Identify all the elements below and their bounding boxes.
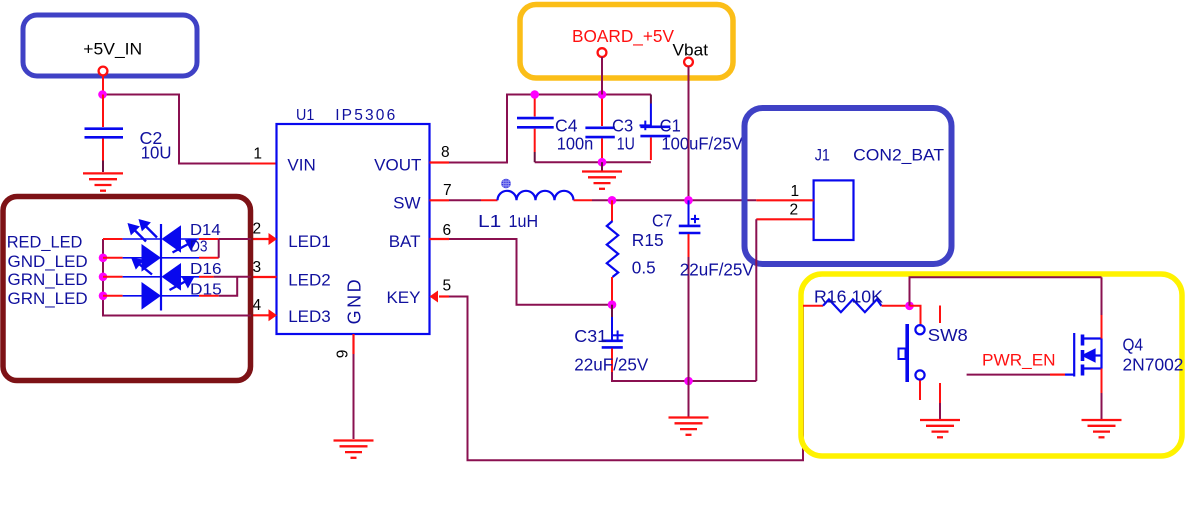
switch SW8 actuator bar [905, 324, 909, 382]
pin 3 LED2 stub [251, 276, 277, 278]
wire C7 to bottom bus [688, 257, 690, 381]
capacitor C31 lead top [611, 305, 613, 317]
pin 5 KEY arrow [430, 291, 450, 303]
node bus row2 [99, 253, 108, 262]
svg-text:L1: L1 [478, 211, 501, 231]
wire C2 to ground [102, 161, 104, 173]
terminal circle +5V_IN [99, 67, 108, 76]
node bus row3 [99, 273, 108, 282]
node bottom bus / ground [684, 377, 693, 386]
pin stub row4 left [103, 295, 123, 297]
LED D14 arrows [129, 221, 157, 242]
wire row1 to pin2 [219, 238, 251, 240]
wire row3 to pin3 [214, 276, 251, 278]
svg-text:SW8: SW8 [928, 325, 968, 345]
node SW/R15 [608, 196, 617, 205]
switch SW8 stub bottom-left [919, 381, 921, 401]
svg-text:C7: C7 [652, 211, 672, 231]
node SW/Vbat [684, 196, 693, 205]
LED D16 line left [123, 276, 161, 278]
node A (+5V_IN junction) [98, 90, 107, 99]
wire VOUT to top bus [449, 95, 651, 163]
capacitor C1 lead bottom [650, 138, 652, 161]
svg-text:2: 2 [253, 221, 262, 238]
wire PWR_EN to gate [967, 374, 1050, 376]
svg-text:LED2: LED2 [288, 270, 331, 289]
node BAT/R15/C31 [608, 300, 617, 309]
svg-text:5: 5 [443, 278, 452, 295]
ground (Q4) [1082, 420, 1122, 437]
control group box (yellow) [801, 274, 1182, 456]
LED D15 arrow [170, 278, 193, 290]
LED D14 [162, 225, 182, 253]
LED D15 line left [123, 295, 142, 297]
ground (C2) [83, 173, 123, 190]
svg-text:C31: C31 [574, 326, 607, 346]
pin stub row2 left [103, 257, 123, 259]
wire bottom bus of C4/C3/C1 [535, 161, 651, 163]
capacitor C2 lead bottom [102, 139, 104, 161]
wire L1 to R15 node to Vbat node to J1 [592, 199, 756, 201]
svg-text:VIN: VIN [287, 156, 315, 175]
polarity plus C7 [691, 215, 699, 223]
pin 1 J1 [756, 199, 813, 201]
svg-text:100uF/25V: 100uF/25V [661, 133, 743, 153]
node top bus / C4 [530, 90, 539, 99]
wire SW8 to ground [939, 403, 941, 419]
pin stub row2 right [199, 257, 219, 259]
power port box BOARD_+5V [520, 5, 733, 79]
LED D3 [142, 244, 162, 272]
wire C3 node to ground [601, 162, 603, 170]
svg-text:9: 9 [334, 350, 351, 359]
LED D15 line right [161, 295, 199, 297]
svg-text:J1: J1 [815, 145, 830, 164]
LED group box (maroon) [3, 197, 251, 381]
svg-text:7: 7 [443, 182, 452, 199]
transistor Q4 drain lead [1101, 315, 1103, 339]
pin 7 SW stub [430, 199, 450, 201]
connector body J1 [814, 180, 854, 240]
transistor Q4 gate pin [1050, 374, 1065, 376]
switch SW8 stub bottom-right [939, 383, 941, 403]
pin 2 J1 [756, 218, 813, 220]
svg-text:VOUT: VOUT [374, 156, 421, 175]
resistor R16 [823, 299, 882, 312]
svg-text:0.5: 0.5 [632, 258, 656, 278]
switch SW8 contact top [915, 325, 924, 334]
node R16/SW8/Q4 [905, 302, 914, 311]
capacitor C2 lead top [102, 95, 104, 128]
capacitor C7 [679, 226, 701, 233]
resistor R16 lead left [803, 305, 823, 307]
svg-text:D16: D16 [190, 261, 222, 278]
LED D16 line right [181, 276, 199, 278]
capacitor C2 [85, 129, 124, 138]
LED D16 [162, 263, 182, 291]
wire C4 bottom to bus [534, 152, 536, 162]
pin stub row1 left [103, 238, 123, 240]
svg-text:GRN_LED: GRN_LED [8, 270, 88, 289]
inductor L1 [498, 191, 574, 201]
svg-text:U1: U1 [296, 107, 314, 124]
polarity plus C1 [640, 121, 651, 131]
wire pin9 to ground [353, 354, 355, 439]
capacitor C1 lead top [650, 95, 652, 104]
pin stub row3 left [103, 276, 123, 278]
svg-text:10U: 10U [141, 143, 172, 163]
svg-text:22uF/25V: 22uF/25V [574, 355, 648, 375]
wire C31 to bottom bus [612, 372, 756, 381]
pin 1 red stub [250, 163, 277, 165]
resistor R16 lead right [882, 305, 910, 307]
inductor L1 lead left [481, 199, 498, 201]
wire row2 riser to row1 [218, 239, 220, 258]
svg-text:D14: D14 [190, 222, 221, 239]
svg-text:3: 3 [253, 259, 262, 276]
wire bus node to ground [688, 381, 690, 417]
wire node to VIN corner [103, 95, 251, 164]
switch SW8 pin top-left [910, 306, 921, 325]
ground (U1 pin 9) [334, 441, 374, 458]
svg-text:LED3: LED3 [288, 307, 331, 326]
LED D14 line left [123, 238, 161, 240]
capacitor C31 lead bottom [611, 349, 613, 373]
pin stub row4 right [199, 295, 219, 297]
LED D3 line left [123, 257, 142, 259]
svg-text:6: 6 [443, 222, 452, 239]
svg-text:PWR_EN: PWR_EN [982, 351, 1056, 370]
switch SW8 actuator button [899, 349, 906, 360]
svg-text:1U: 1U [617, 133, 635, 153]
svg-text:22uF/25V: 22uF/25V [680, 260, 754, 280]
wire node up to drain bus [910, 277, 1102, 306]
LED D3 arrow [173, 240, 196, 252]
svg-text:1uH: 1uH [509, 211, 539, 231]
LED D16 arrow [133, 259, 152, 274]
polarity plus C31 [612, 331, 623, 341]
wire BAT pin to R15 bottom [449, 239, 612, 305]
pin 9 GND stub [352, 334, 354, 354]
capacitor C4 [517, 118, 554, 127]
svg-text:LED1: LED1 [288, 232, 331, 251]
capacitor C4 lead top [534, 95, 536, 117]
capacitor C3 lead bottom [601, 139, 603, 163]
svg-text:RED_LED: RED_LED [7, 233, 83, 252]
pin 2 LED1 arrow [251, 233, 277, 245]
switch SW8 stub top-right [939, 306, 941, 324]
resistor R15 lead bottom [611, 277, 613, 305]
transistor Q4 2N7002 [1065, 333, 1102, 377]
ground (battery bus) [669, 418, 709, 435]
svg-text:2: 2 [790, 202, 799, 219]
svg-text:GRN_LED: GRN_LED [8, 289, 88, 308]
pin 4 LED3 arrow [251, 309, 277, 321]
wire Vbat down to SW node [688, 66, 690, 200]
pin stub row3 right [199, 276, 214, 278]
terminal circle Vbat [684, 58, 693, 67]
node bus row4 [99, 292, 108, 301]
wire row4 riser to row3 [219, 277, 238, 296]
wire SW pin to L1 [449, 199, 481, 201]
wire LED left bus [103, 239, 251, 316]
resistor R15 [607, 221, 618, 277]
svg-text:1: 1 [791, 183, 800, 200]
polarity dot L1 [501, 179, 511, 189]
svg-text:D15: D15 [190, 281, 222, 298]
svg-text:BOARD_+5V: BOARD_+5V [572, 26, 674, 47]
svg-text:Q4: Q4 [1123, 335, 1144, 355]
svg-text:IP5306: IP5306 [335, 107, 395, 124]
terminal circle BOARD_+5V [598, 48, 607, 57]
svg-text:D3: D3 [190, 239, 208, 256]
transistor Q4 source lead [1101, 369, 1103, 394]
svg-text:R15: R15 [632, 230, 664, 250]
svg-text:R16 10K: R16 10K [814, 287, 883, 307]
pin 6 BAT stub [430, 238, 450, 240]
capacitor C4 lead bottom [534, 129, 536, 152]
wire drain bus down to Q4 [1101, 277, 1103, 315]
svg-text:4: 4 [253, 297, 262, 314]
wire +5V_IN terminal to node [102, 76, 104, 95]
inductor L1 lead right [574, 199, 593, 201]
wire J1 pin2 to bottom bus [755, 219, 757, 381]
svg-text:GND: GND [345, 279, 365, 324]
connector box J1 [745, 108, 952, 264]
svg-text:BAT: BAT [389, 232, 421, 251]
pin stub row1 right [199, 238, 219, 240]
capacitor C1 [640, 127, 670, 136]
svg-text:GND_LED: GND_LED [8, 252, 88, 271]
resistor R15 lead top [611, 200, 613, 221]
ground (C3 bus) [582, 172, 622, 189]
wire KEY pin to R16 [449, 297, 803, 461]
capacitor C7 lead top [688, 200, 690, 225]
node bottom bus / C3 ground [598, 158, 607, 167]
pin 8 VOUT stub [430, 161, 450, 163]
LED common bar [160, 224, 162, 311]
node top bus / C3 [598, 90, 607, 99]
svg-text:CON2_BAT: CON2_BAT [853, 145, 944, 164]
svg-text:2N7002: 2N7002 [1123, 354, 1184, 374]
svg-text:8: 8 [441, 144, 450, 161]
svg-text:1: 1 [253, 146, 262, 163]
capacitor C3 [585, 128, 614, 137]
wire BOARD_+5V to top bus [601, 57, 603, 95]
LED D14 line right [181, 238, 199, 240]
LED D3 line right [161, 257, 199, 259]
port box +5V_IN [23, 15, 197, 76]
capacitor C3 lead top [601, 95, 603, 127]
op-amp U1 chip body IP5306 [277, 124, 430, 334]
svg-text:KEY: KEY [386, 288, 420, 307]
svg-text:+5V_IN: +5V_IN [83, 40, 142, 59]
ground (SW8) [920, 420, 960, 437]
capacitor C7 lead bottom [688, 234, 690, 257]
switch SW8 contact bottom [915, 370, 924, 379]
wire Q4 source to ground [1101, 393, 1103, 419]
capacitor C31 [602, 341, 623, 348]
svg-text:Vbat: Vbat [673, 40, 709, 59]
svg-text:SW: SW [393, 194, 420, 213]
LED D15 [142, 282, 162, 310]
